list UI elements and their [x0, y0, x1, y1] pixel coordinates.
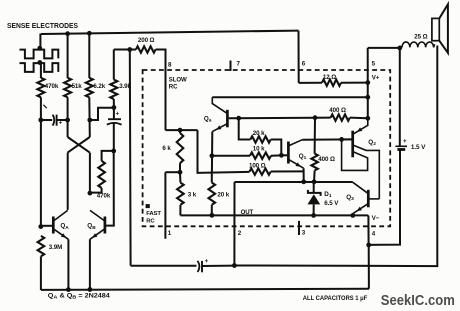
- tick mark artifact: [43, 105, 46, 108]
- wire: C3 to pin2 node: [202, 265, 234, 267]
- wire: cross-couple right-to-left: [68, 137, 90, 153]
- svg-text:ALL CAPACITORS 1 μF: ALL CAPACITORS 1 μF: [303, 295, 368, 302]
- wire: 3.9k bottom lead: [113, 99, 115, 108]
- node: Q3 emitter on Vminus: [350, 213, 355, 218]
- wire: 10k left lead: [212, 155, 250, 157]
- resistor 100ohm: [250, 168, 271, 174]
- wire: Q1 base lead: [281, 154, 287, 156]
- wire: 3.9k top to 200ohm: [114, 49, 136, 51]
- node: D1 on Vminus: [311, 213, 316, 218]
- transistor QB bar: [104, 217, 107, 234]
- node: 6k top: [178, 128, 183, 133]
- wire: QB emitter down: [89, 239, 91, 289]
- svg-text:RC: RC: [146, 218, 155, 224]
- arrow: Q3 emitter: [357, 207, 362, 212]
- wire: pin6 to 12ohm: [299, 82, 322, 84]
- node: pin2/C3 junction: [232, 263, 237, 268]
- battery 1.5V short plate: [397, 148, 405, 151]
- resistor 400ohm vertical: [311, 154, 317, 171]
- wire: 200ohm to pin 8: [156, 50, 166, 131]
- wire: C2 bottom lead: [113, 123, 115, 151]
- diode D1 zener cathode bar: [308, 190, 321, 196]
- svg-text:+: +: [116, 111, 120, 118]
- transistor Q2 bar: [351, 131, 354, 158]
- resistor 20k feedback: [250, 136, 270, 142]
- node: 6k bottom: [178, 170, 183, 175]
- battery 1.5V long plate: [395, 145, 407, 147]
- resistor 51k: [64, 78, 71, 98]
- wire: D1 top lead: [313, 182, 315, 193]
- wire: pin5 to coil junction: [368, 47, 400, 49]
- IC boundary (dashed box): [143, 70, 391, 226]
- transistor Q1 bar: [287, 142, 290, 164]
- node: cap C1 left: [38, 118, 43, 123]
- svg-text:FAST: FAST: [146, 211, 161, 217]
- wire: pin4 riser: [367, 215, 369, 245]
- capacitor C3 left plate: [198, 261, 200, 272]
- svg-text:200 Ω: 200 Ω: [138, 37, 155, 44]
- node: V+ rail tap: [365, 95, 370, 100]
- transistor QA bar: [52, 217, 55, 234]
- wire: pin5 riser: [367, 48, 369, 118]
- wire: C3 line to speaker: [234, 46, 437, 267]
- transistor Q1 emitter: [289, 160, 304, 169]
- arrow: QA emitter: [61, 233, 66, 238]
- wire: 100ohm right lead: [271, 170, 304, 172]
- battery 1.5V top lead: [399, 48, 401, 146]
- wire: 6k top lead: [179, 130, 181, 133]
- node: V+ 400h/Q2 tap: [365, 116, 370, 121]
- node: rail/51k junction: [65, 31, 70, 36]
- wire: cross-couple left-to-right: [68, 137, 90, 153]
- svg-text:470k: 470k: [97, 193, 111, 200]
- node: pin4 junction: [366, 243, 371, 248]
- node: QA base junction: [38, 224, 43, 229]
- svg-text:1.5 V: 1.5 V: [411, 144, 426, 151]
- resistor 6k: [177, 133, 184, 163]
- node: 200ohm/QB-base junction: [127, 47, 132, 52]
- node: QA emitter on rail: [66, 287, 71, 292]
- resistor 200ohm: [136, 46, 156, 52]
- sense electrode B (lower comb): [20, 63, 59, 72]
- svg-text:3 k: 3 k: [188, 191, 197, 198]
- wire: D1 bottom lead: [313, 204, 315, 215]
- wire: 400v top lead: [314, 118, 316, 154]
- wire: staircase to cap C2: [90, 108, 114, 120]
- wire: bottom ground rail: [41, 289, 369, 290]
- svg-text:QA & QB = 2N2484: QA & QB = 2N2484: [48, 292, 111, 300]
- svg-text:SLOW: SLOW: [169, 77, 187, 84]
- FAST RC bullet: [146, 204, 150, 208]
- svg-text:6.5 V: 6.5 V: [324, 200, 339, 207]
- svg-text:20 k: 20 k: [217, 191, 229, 198]
- transistor QB emitter: [90, 229, 104, 239]
- node: coil/battery junction: [397, 46, 402, 51]
- transistor Q3 collector: [353, 182, 368, 193]
- node: Q2 base junction: [339, 137, 344, 142]
- wire: Qa base line: [229, 117, 315, 120]
- wire: pin6 riser: [298, 31, 300, 83]
- node: rail/6.2k junction: [87, 31, 92, 36]
- wire: QB base long riser: [129, 50, 132, 266]
- node: Q1 base junction: [279, 153, 284, 158]
- capacitor C2 top plate: [108, 118, 121, 120]
- transistor QB collector: [90, 210, 104, 220]
- node: 400v on OUT: [312, 179, 317, 184]
- speaker cone: [439, 4, 448, 53]
- wire: 20k feedback right lead: [271, 140, 282, 156]
- resistor 470k (input): [37, 78, 44, 98]
- wire: 51k down to cross: [67, 97, 69, 137]
- node: 3.9k/C2 top: [112, 105, 117, 110]
- svg-text:100 Ω: 100 Ω: [249, 162, 266, 169]
- transistor Q2 emitter (top): [353, 119, 367, 134]
- resistor 6.2k: [86, 78, 93, 98]
- node: cap C1 right: [65, 118, 70, 123]
- transistor Q2 collector to Q3 base: [353, 145, 379, 199]
- transistor Qa bar: [226, 110, 229, 128]
- capacitor C1 right plate: [56, 115, 58, 126]
- node: QB collector junction: [88, 191, 93, 196]
- wire: C2 junction to 470k-2: [102, 151, 114, 161]
- wire: pin8 node down-right to 100ohm: [198, 130, 250, 173]
- node: QB emitter on rail: [88, 287, 93, 292]
- wire: C1 right lead: [57, 119, 68, 121]
- transistor Q1 collector: [289, 140, 302, 146]
- wire: 3k to Vminus rail: [179, 205, 181, 216]
- arrow: Q2 emitter: [357, 127, 362, 131]
- node: electrode A feed: [37, 46, 42, 51]
- svg-text:20 k: 20 k: [253, 130, 265, 137]
- wire: 20k-v top lead: [211, 173, 213, 183]
- pin 7 stub: [230, 61, 232, 72]
- wire: QA emitter down: [67, 239, 69, 289]
- inductor 25 ohm voice coil: [402, 42, 435, 47]
- transistor Q3 bar: [367, 190, 370, 208]
- node: Qa emitter/10k: [210, 153, 215, 158]
- wire: 6k bottom to pin1: [165, 171, 180, 173]
- svg-text:400 Ω: 400 Ω: [329, 107, 346, 114]
- wire: 20k-v bottom lead: [211, 205, 213, 216]
- transistor Qa emitter: [212, 124, 227, 132]
- wire: 3k top lead: [179, 172, 181, 182]
- wire: Q1 collector to Q2 base: [302, 138, 352, 140]
- wire: top supply rail: [41, 31, 299, 34]
- svg-text:V+: V+: [372, 75, 380, 82]
- wire: Q1 emitter to OUT line: [303, 168, 305, 182]
- transistor Q2 lower lead loop: [342, 139, 368, 170]
- node: 20k-v on Vminus: [210, 213, 215, 218]
- wire: pin8 node horizontal: [166, 129, 198, 131]
- wire: 400v bottom lead: [313, 171, 316, 182]
- node: 6.2k/staircase junction: [87, 118, 92, 123]
- node: 400ohm junction: [313, 115, 318, 120]
- resistor 3.9k: [110, 80, 117, 99]
- wire: 3.9k top feed: [113, 50, 115, 80]
- wire: rail down to 6.2k: [88, 33, 90, 78]
- diode D1 triangle (anode, points up): [308, 194, 321, 204]
- wire: QA base lead: [41, 225, 52, 227]
- svg-text:SENSE ELECTRODES: SENSE ELECTRODES: [7, 23, 78, 30]
- wire: 470k-2 to QB collector node: [90, 188, 102, 193]
- wire: 400h right lead: [350, 117, 368, 120]
- wire: 12ohm to V+: [341, 82, 368, 84]
- wire: cross to QB collector: [89, 153, 91, 194]
- sense electrode A (upper comb): [20, 50, 59, 59]
- wire: 10k right lead: [271, 154, 281, 156]
- wire: pin2 drop: [233, 182, 235, 266]
- wire: 6.2k down to cross: [88, 97, 91, 137]
- resistor 3k: [177, 183, 184, 205]
- svg-text:6.2k: 6.2k: [93, 83, 105, 90]
- resistor 20k vertical: [209, 183, 216, 205]
- wire: OUT line: [235, 181, 353, 183]
- capacitor C2 bottom plate: [107, 123, 122, 125]
- svg-text:25 Ω: 25 Ω: [414, 34, 427, 41]
- wire: QB riser to C3 line: [131, 265, 197, 267]
- wire: 3.9M to bottom rail: [40, 256, 42, 290]
- svg-text:10 k: 10 k: [253, 146, 265, 153]
- arrow: Q1 emitter: [296, 162, 301, 166]
- wire: rail to electrode A: [39, 34, 41, 50]
- svg-text:RC: RC: [169, 84, 178, 91]
- wire: pin4 down to ground rail: [368, 245, 370, 289]
- svg-text:12 Ω: 12 Ω: [323, 74, 336, 81]
- svg-text:V−: V−: [372, 215, 380, 222]
- wire: Qa emitter down: [211, 132, 213, 173]
- wire: 470k to QA base: [40, 97, 42, 227]
- transistor Q3 emitter: [353, 204, 368, 214]
- svg-text:6 k: 6 k: [162, 145, 171, 152]
- node: Qa base/20k feedback: [236, 116, 241, 121]
- node: C2 bottom junction: [111, 149, 116, 154]
- wire: Q3 emitter to Vminus: [352, 214, 354, 216]
- wire: V+ internal rail: [212, 96, 367, 98]
- wire: 6k bottom lead: [179, 163, 181, 172]
- wire: pin4 to battery minus: [369, 150, 400, 245]
- wire: Q2 base lead: [342, 138, 352, 140]
- capacitor C3 right plate: [201, 261, 203, 272]
- wire: C1 left lead: [41, 119, 52, 121]
- transistor QA emitter: [54, 229, 69, 239]
- wire: cross to QA collector: [67, 153, 69, 210]
- wire: Q3 base lead: [370, 198, 380, 200]
- arrow: Qa emitter: [216, 125, 221, 129]
- resistor 12ohm: [322, 80, 341, 86]
- node: Q1 emitter on OUT: [301, 179, 306, 184]
- svg-text:+: +: [205, 258, 209, 265]
- resistor 3.9M: [38, 236, 45, 257]
- node: electrode B feed: [37, 60, 42, 65]
- capacitor C1 left plate: [53, 115, 55, 126]
- transistor QA collector: [54, 210, 68, 220]
- wire: Vminus rail: [180, 214, 368, 216]
- node: V+ 12ohm tap: [365, 80, 370, 85]
- arrow: QB emitter: [92, 233, 97, 238]
- svg-text:3.9M: 3.9M: [49, 244, 62, 251]
- speaker driver box: [432, 18, 439, 40]
- wire: rail down to 51k: [67, 34, 69, 78]
- wire: C2 top lead: [113, 108, 115, 120]
- wire: 20k feedback left lead: [239, 118, 251, 139]
- wire: C2 junction down to QB base: [106, 151, 114, 226]
- resistor 10k: [250, 153, 271, 159]
- wire: electrode B down to R 470k: [40, 63, 42, 78]
- svg-text:+: +: [403, 138, 407, 145]
- resistor 470k (bias): [98, 161, 105, 188]
- pin 3 stub: [298, 221, 300, 235]
- svg-text:51k: 51k: [72, 83, 83, 90]
- wire: 400h left lead: [315, 117, 331, 119]
- pin 1 stub: [164, 172, 166, 239]
- svg-text:SeekIC.com: SeekIC.com: [381, 292, 455, 309]
- resistor 400ohm horizontal: [331, 114, 350, 120]
- svg-text:400 Ω: 400 Ω: [318, 156, 335, 163]
- svg-text:470k: 470k: [45, 83, 59, 90]
- transistor Qa collector: [212, 97, 227, 113]
